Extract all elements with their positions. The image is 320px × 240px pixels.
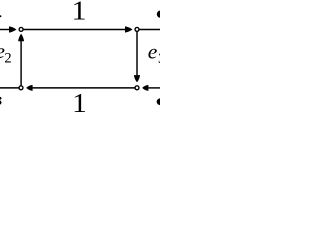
node BL [18,85,23,90]
cut-off glyph top-left corner [0,15,1,17]
node BR [134,85,139,90]
node TR [134,27,139,32]
arrowhead into node BL (points left) [26,85,32,91]
arrowhead into node TR (points right) [125,26,133,32]
wire top-left entering segment [0,29,9,31]
wire left vertical BL to TL [20,41,22,88]
svg-text:1: 1 [72,0,87,26]
cut-off glyph top-right corner [157,10,165,17]
node TL [18,27,23,32]
cut-off glyph bottom-left corner upper mark [0,97,2,100]
wire top-right exiting segment [137,29,160,31]
svg-text:e: e [148,40,158,64]
wire top edge TL to TR [21,29,125,31]
cut-off glyph bottom-right corner [157,98,165,105]
wire bottom-left exiting segment [0,87,21,89]
svg-text:1: 1 [72,88,87,118]
cut-off glyph bottom-left corner lower mark [0,100,2,104]
svg-text:2: 2 [4,50,11,66]
wire bottom-right entering segment [148,87,160,89]
svg-text:3: 3 [158,51,160,67]
wire right vertical TR to BR [136,30,138,76]
arrowhead into node TL from below (points up) [18,34,24,42]
arrowhead into node BR (points left) [142,85,148,91]
wire bottom edge BR to BL [32,87,137,89]
arrowhead into node TL (points right) [9,26,17,32]
arrowhead into node BR from above (points down) [134,75,140,82]
